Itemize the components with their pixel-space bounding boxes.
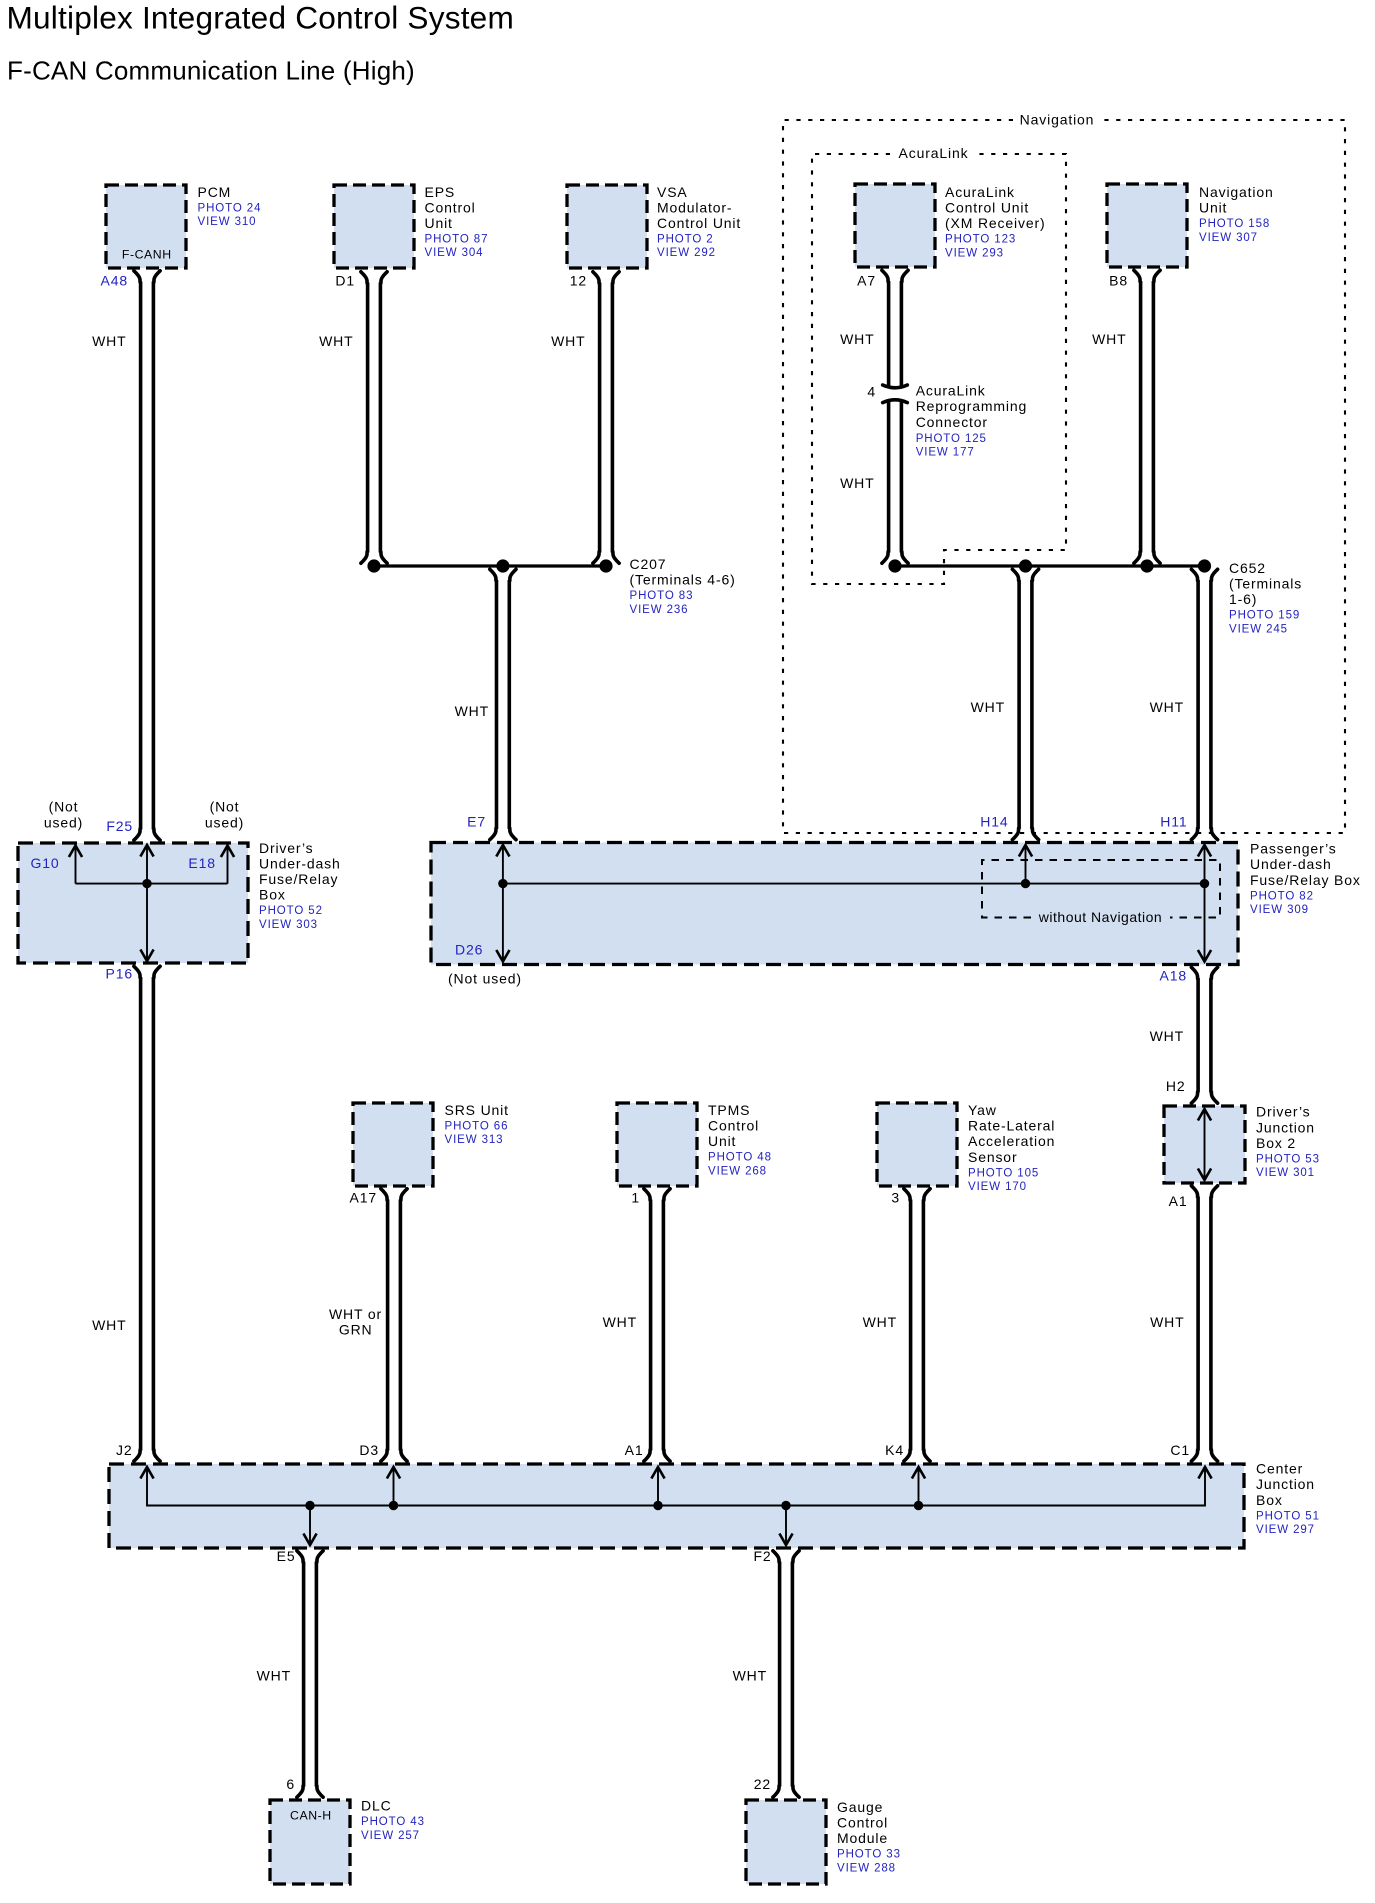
svg-text:SRS Unit: SRS Unit bbox=[445, 1102, 509, 1118]
svg-text:CAN-H: CAN-H bbox=[290, 1809, 332, 1823]
svg-text:VIEW 268: VIEW 268 bbox=[708, 1165, 767, 1177]
svg-text:Multiplex Integrated Control S: Multiplex Integrated Control System bbox=[7, 0, 514, 36]
svg-text:Navigation: Navigation bbox=[1199, 184, 1274, 200]
svg-text:AcuraLink: AcuraLink bbox=[945, 184, 1015, 200]
svg-text:WHT: WHT bbox=[603, 1314, 637, 1330]
svg-text:PHOTO 66: PHOTO 66 bbox=[445, 1121, 509, 1133]
svg-text:Box 2: Box 2 bbox=[1256, 1135, 1296, 1151]
svg-text:WHT: WHT bbox=[257, 1668, 291, 1684]
svg-text:used): used) bbox=[44, 814, 83, 830]
svg-text:WHT: WHT bbox=[455, 703, 489, 719]
svg-text:C1: C1 bbox=[1170, 1442, 1190, 1458]
svg-text:WHT: WHT bbox=[1150, 1314, 1184, 1330]
svg-text:Rate-Lateral: Rate-Lateral bbox=[968, 1118, 1055, 1134]
svg-text:A1: A1 bbox=[1169, 1193, 1188, 1209]
svg-text:TPMS: TPMS bbox=[708, 1102, 750, 1118]
svg-text:WHT: WHT bbox=[840, 475, 874, 491]
svg-text:Navigation: Navigation bbox=[1020, 111, 1095, 127]
svg-text:12: 12 bbox=[570, 273, 587, 289]
svg-text:VIEW 170: VIEW 170 bbox=[968, 1181, 1027, 1193]
svg-text:WHT or: WHT or bbox=[329, 1306, 382, 1322]
svg-text:Driver’s: Driver’s bbox=[1256, 1104, 1311, 1120]
svg-text:VSA: VSA bbox=[657, 184, 688, 200]
svg-text:D3: D3 bbox=[359, 1442, 379, 1458]
svg-text:Yaw: Yaw bbox=[968, 1102, 997, 1118]
svg-text:WHT: WHT bbox=[733, 1668, 767, 1684]
svg-text:(Terminals: (Terminals bbox=[1229, 576, 1302, 592]
svg-text:VIEW 313: VIEW 313 bbox=[445, 1134, 504, 1146]
svg-text:Junction: Junction bbox=[1256, 1119, 1315, 1135]
svg-text:PHOTO 87: PHOTO 87 bbox=[425, 234, 489, 246]
svg-text:Sensor: Sensor bbox=[968, 1149, 1017, 1165]
svg-text:PHOTO 83: PHOTO 83 bbox=[630, 590, 694, 602]
svg-text:PHOTO 123: PHOTO 123 bbox=[945, 234, 1016, 246]
svg-text:PHOTO 48: PHOTO 48 bbox=[708, 1152, 772, 1164]
svg-text:PHOTO 158: PHOTO 158 bbox=[1199, 218, 1270, 230]
svg-text:C207: C207 bbox=[630, 556, 667, 572]
svg-text:VIEW 307: VIEW 307 bbox=[1199, 232, 1258, 244]
svg-text:D1: D1 bbox=[335, 273, 355, 289]
svg-text:WHT: WHT bbox=[1150, 1028, 1184, 1044]
svg-text:Unit: Unit bbox=[1199, 200, 1227, 216]
svg-text:Acceleration: Acceleration bbox=[968, 1133, 1055, 1149]
svg-text:E7: E7 bbox=[467, 814, 486, 830]
svg-text:E5: E5 bbox=[277, 1548, 296, 1564]
svg-text:Control: Control bbox=[425, 199, 476, 215]
svg-text:Unit: Unit bbox=[425, 215, 453, 231]
svg-text:(Not: (Not bbox=[49, 799, 79, 815]
svg-text:VIEW 245: VIEW 245 bbox=[1229, 623, 1288, 635]
svg-text:Under-dash: Under-dash bbox=[1250, 856, 1332, 872]
svg-text:Control: Control bbox=[837, 1815, 888, 1831]
svg-text:4: 4 bbox=[867, 383, 876, 399]
svg-text:PHOTO 2: PHOTO 2 bbox=[657, 234, 714, 246]
svg-text:Control Unit: Control Unit bbox=[945, 200, 1029, 216]
svg-text:without Navigation: without Navigation bbox=[1038, 909, 1162, 925]
svg-text:H14: H14 bbox=[980, 814, 1008, 830]
svg-text:used): used) bbox=[205, 814, 244, 830]
svg-text:WHT: WHT bbox=[1150, 699, 1184, 715]
svg-text:Under-dash: Under-dash bbox=[259, 855, 341, 871]
svg-text:VIEW 177: VIEW 177 bbox=[916, 447, 975, 459]
svg-text:WHT: WHT bbox=[863, 1314, 897, 1330]
svg-text:A18: A18 bbox=[1160, 968, 1187, 984]
svg-text:(Not used): (Not used) bbox=[448, 971, 522, 987]
svg-text:VIEW 288: VIEW 288 bbox=[837, 1862, 896, 1874]
svg-text:WHT: WHT bbox=[92, 333, 126, 349]
svg-text:H2: H2 bbox=[1166, 1078, 1186, 1094]
svg-text:(Terminals 4-6): (Terminals 4-6) bbox=[630, 572, 736, 588]
svg-text:Box: Box bbox=[259, 887, 286, 903]
svg-text:PHOTO 51: PHOTO 51 bbox=[1256, 1510, 1320, 1522]
svg-text:22: 22 bbox=[754, 1776, 771, 1792]
svg-text:WHT: WHT bbox=[971, 699, 1005, 715]
svg-text:Connector: Connector bbox=[916, 414, 988, 430]
svg-text:VIEW 309: VIEW 309 bbox=[1250, 904, 1309, 916]
svg-text:F-CAN Communication Line (High: F-CAN Communication Line (High) bbox=[7, 55, 415, 85]
svg-text:PHOTO 105: PHOTO 105 bbox=[968, 1167, 1039, 1179]
svg-text:E18: E18 bbox=[188, 855, 215, 871]
svg-text:A7: A7 bbox=[857, 273, 876, 289]
svg-text:G10: G10 bbox=[31, 855, 60, 871]
svg-text:WHT: WHT bbox=[1092, 331, 1126, 347]
svg-text:Center: Center bbox=[1256, 1461, 1303, 1477]
svg-text:A17: A17 bbox=[350, 1190, 377, 1206]
svg-text:H11: H11 bbox=[1160, 814, 1187, 830]
svg-text:VIEW 301: VIEW 301 bbox=[1256, 1167, 1315, 1179]
svg-text:B8: B8 bbox=[1109, 273, 1128, 289]
svg-text:J2: J2 bbox=[116, 1442, 133, 1458]
svg-text:PHOTO 43: PHOTO 43 bbox=[361, 1816, 425, 1828]
svg-text:EPS: EPS bbox=[425, 184, 456, 200]
svg-text:Control Unit: Control Unit bbox=[657, 215, 741, 231]
svg-text:VIEW 310: VIEW 310 bbox=[198, 216, 257, 228]
svg-text:Module: Module bbox=[837, 1830, 888, 1846]
svg-text:PCM: PCM bbox=[198, 184, 232, 200]
svg-text:Control: Control bbox=[708, 1118, 759, 1134]
svg-text:F2: F2 bbox=[753, 1548, 771, 1564]
svg-text:VIEW 292: VIEW 292 bbox=[657, 247, 716, 259]
svg-text:DLC: DLC bbox=[361, 1798, 392, 1814]
svg-text:Driver’s: Driver’s bbox=[259, 840, 314, 856]
svg-text:GRN: GRN bbox=[339, 1322, 373, 1338]
svg-text:WHT: WHT bbox=[551, 333, 585, 349]
svg-text:Reprogramming: Reprogramming bbox=[916, 398, 1027, 414]
svg-text:1-6): 1-6) bbox=[1229, 591, 1257, 607]
svg-text:PHOTO 24: PHOTO 24 bbox=[198, 202, 262, 214]
svg-text:K4: K4 bbox=[885, 1442, 904, 1458]
svg-text:PHOTO 52: PHOTO 52 bbox=[259, 905, 323, 917]
svg-text:Junction: Junction bbox=[1256, 1476, 1315, 1492]
svg-text:WHT: WHT bbox=[319, 333, 353, 349]
svg-text:Fuse/Relay Box: Fuse/Relay Box bbox=[1250, 872, 1361, 888]
svg-text:A1: A1 bbox=[625, 1442, 644, 1458]
svg-text:Box: Box bbox=[1256, 1492, 1283, 1508]
svg-text:VIEW 297: VIEW 297 bbox=[1256, 1524, 1315, 1536]
svg-text:1: 1 bbox=[631, 1190, 640, 1206]
svg-text:F25: F25 bbox=[106, 818, 133, 834]
svg-text:VIEW 303: VIEW 303 bbox=[259, 919, 318, 931]
svg-text:VIEW 293: VIEW 293 bbox=[945, 247, 1004, 259]
svg-text:AcuraLink: AcuraLink bbox=[916, 383, 986, 399]
svg-text:(Not: (Not bbox=[210, 799, 240, 815]
svg-text:VIEW 304: VIEW 304 bbox=[425, 247, 484, 259]
svg-text:3: 3 bbox=[891, 1190, 900, 1206]
svg-text:PHOTO 125: PHOTO 125 bbox=[916, 433, 987, 445]
svg-text:PHOTO 33: PHOTO 33 bbox=[837, 1849, 901, 1861]
svg-text:P16: P16 bbox=[106, 966, 133, 982]
svg-text:C652: C652 bbox=[1229, 560, 1266, 576]
svg-text:A48: A48 bbox=[101, 273, 128, 289]
svg-text:AcuraLink: AcuraLink bbox=[899, 145, 969, 161]
svg-text:PHOTO 159: PHOTO 159 bbox=[1229, 610, 1300, 622]
svg-text:(XM Receiver): (XM Receiver) bbox=[945, 215, 1046, 231]
svg-text:Modulator-: Modulator- bbox=[657, 199, 732, 215]
svg-text:PHOTO 53: PHOTO 53 bbox=[1256, 1153, 1320, 1165]
svg-text:F-CANH: F-CANH bbox=[122, 248, 172, 262]
svg-text:VIEW 257: VIEW 257 bbox=[361, 1830, 420, 1842]
svg-text:WHT: WHT bbox=[92, 1317, 126, 1333]
svg-text:Unit: Unit bbox=[708, 1133, 736, 1149]
svg-text:Passenger’s: Passenger’s bbox=[1250, 841, 1337, 857]
svg-text:Gauge: Gauge bbox=[837, 1799, 883, 1815]
svg-text:VIEW 236: VIEW 236 bbox=[630, 604, 689, 616]
svg-text:Fuse/Relay: Fuse/Relay bbox=[259, 871, 338, 887]
svg-text:D26: D26 bbox=[455, 942, 483, 958]
svg-text:PHOTO 82: PHOTO 82 bbox=[1250, 890, 1314, 902]
svg-text:WHT: WHT bbox=[840, 331, 874, 347]
svg-text:6: 6 bbox=[286, 1776, 295, 1792]
